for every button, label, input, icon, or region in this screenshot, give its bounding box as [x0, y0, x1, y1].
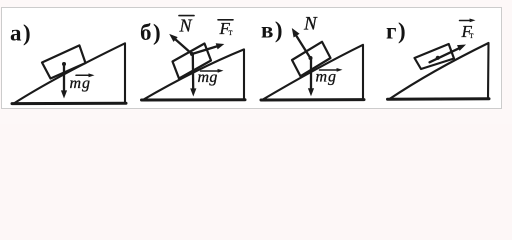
- svg-text:в): в): [261, 18, 284, 43]
- mg arrow v: [309, 56, 313, 60]
- svg-text:N: N: [303, 14, 318, 35]
- block a: [42, 45, 86, 78]
- svg-text:т: т: [470, 30, 474, 40]
- svg-text:N: N: [179, 16, 193, 36]
- incline triangle v: [262, 45, 363, 100]
- block b: [173, 44, 212, 79]
- svg-text:б): б): [140, 20, 162, 45]
- svg-text:mg: mg: [316, 69, 338, 86]
- incline triangle a: [13, 43, 125, 103]
- svg-text:т: т: [229, 27, 233, 37]
- svg-text:а): а): [10, 21, 32, 46]
- block g: [415, 44, 455, 69]
- incline triangle g: [389, 43, 489, 99]
- mg arrow a: [62, 62, 66, 66]
- svg-text:г): г): [386, 19, 407, 44]
- block v: [292, 42, 331, 76]
- N arrow v: [296, 36, 310, 58]
- F arrow b: [192, 46, 218, 54]
- svg-text:mg: mg: [70, 75, 92, 92]
- F arrow g: [436, 56, 440, 60]
- N arrow b: [175, 39, 192, 54]
- incline triangle b: [143, 49, 244, 100]
- mg arrow b: [190, 52, 194, 56]
